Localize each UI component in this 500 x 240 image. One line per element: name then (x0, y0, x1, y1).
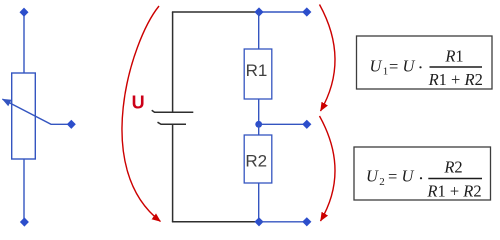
svg-text:U: U (402, 167, 415, 186)
voltage arrow U2 (right lower arc) (320, 116, 336, 221)
wire: top rail black segment (172, 11, 259, 13)
svg-text:R2: R2 (245, 152, 267, 171)
wire: bottom rail blue segment (259, 221, 307, 223)
svg-text:=: = (388, 167, 397, 186)
wire: middle tap rail (259, 123, 307, 125)
voltage arrow U1 (right upper arc) (320, 5, 336, 112)
potentiometer P1 top terminal node (20, 8, 29, 17)
svg-text:R1: R1 (246, 61, 268, 80)
wire: R2 top lead (258, 124, 260, 135)
wire: R1 top lead (258, 12, 260, 49)
wire: R1 bottom lead (258, 99, 260, 124)
wire: bottom rail black segment (172, 221, 259, 223)
formula box U2 frame (354, 147, 491, 200)
potentiometer P1 bottom terminal node (20, 217, 29, 226)
formula U2 main line (366, 167, 422, 188)
wire: top rail blue segment (259, 11, 307, 13)
svg-text:1: 1 (383, 66, 389, 78)
svg-text:U: U (403, 56, 416, 75)
node: bottom junction (254, 217, 263, 226)
svg-text:=: = (389, 57, 398, 76)
potentiometer P1 body (12, 73, 36, 159)
svg-text:U: U (366, 167, 379, 186)
formula U1 fraction bar (430, 66, 483, 68)
voltage arrow U (left arc) (122, 6, 161, 222)
formula box U1 frame (357, 36, 493, 89)
potentiometer P1 top lead wire (23, 13, 25, 74)
svg-text:R1 + R2: R1 + R2 (426, 181, 481, 200)
resistor R1 box (244, 49, 272, 99)
svg-text:2: 2 (379, 176, 385, 188)
svg-text:U: U (370, 56, 383, 75)
wire: left branch lower (black) (172, 124, 174, 222)
resistor R2 box (244, 135, 272, 183)
battery U short plate (158, 122, 187, 124)
wire: left branch upper (black) (172, 12, 174, 112)
formula U1 main line (370, 56, 422, 77)
node: middle right (302, 120, 311, 129)
node: top junction (254, 7, 263, 16)
potentiometer P1 bottom lead wire (23, 159, 25, 222)
node: bottom right (302, 217, 311, 226)
node: junction between R1 and R2 (255, 121, 262, 128)
potentiometer P1 wiper arrow (2, 99, 71, 124)
svg-text:R2: R2 (443, 158, 462, 177)
svg-text:U: U (132, 92, 145, 112)
formula U2 fraction bar (428, 178, 482, 180)
wire: R2 bottom lead (258, 183, 260, 222)
svg-text:R1 + R2: R1 + R2 (428, 70, 483, 89)
battery U long plate (152, 110, 194, 112)
potentiometer P1 wiper terminal node (67, 120, 76, 129)
node: top right (302, 7, 311, 16)
svg-text:R1: R1 (444, 46, 463, 65)
